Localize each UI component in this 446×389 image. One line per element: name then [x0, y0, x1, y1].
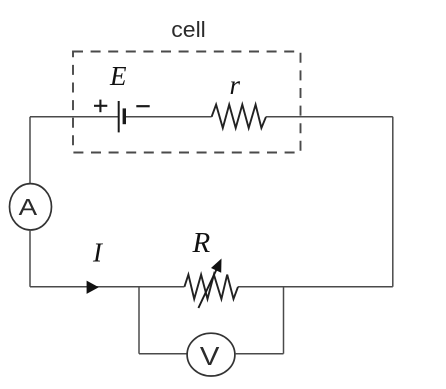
wire battery to resistor r [126, 116, 212, 118]
wire top (left segment to battery) [30, 116, 119, 118]
svg-text:V: V [200, 343, 220, 371]
svg-text:E: E [109, 61, 127, 91]
resistor r [212, 105, 266, 128]
wire bottom (right corner to R) [238, 286, 393, 288]
node junction left of voltmeter branch [138, 287, 140, 354]
wire right side [392, 117, 394, 287]
rheostat R zigzag [184, 275, 238, 299]
battery E [119, 101, 126, 132]
plus sign [94, 100, 107, 113]
wire left lower (ammeter to corner) [29, 230, 31, 287]
wire voltmeter branch bottom right [235, 353, 284, 355]
minus sign [136, 105, 149, 107]
wire bottom (R to left corner) [30, 286, 184, 288]
rheostat R arrowhead [211, 259, 222, 273]
svg-text:cell: cell [171, 17, 206, 42]
current direction arrowhead [87, 281, 99, 294]
ammeter A circle [10, 184, 52, 230]
svg-text:I: I [92, 238, 104, 268]
node junction right of voltmeter branch [283, 287, 285, 354]
svg-text:A: A [19, 194, 38, 220]
rheostat R arrow shaft [198, 270, 216, 309]
wire voltmeter branch bottom left [139, 353, 187, 355]
svg-text:r: r [230, 70, 241, 100]
wire left upper (corner to ammeter) [29, 117, 31, 184]
svg-text:R: R [192, 227, 211, 259]
wire top (r to right corner) [266, 116, 393, 118]
cell enclosure dashed box [73, 52, 301, 153]
voltmeter V circle [187, 333, 235, 376]
